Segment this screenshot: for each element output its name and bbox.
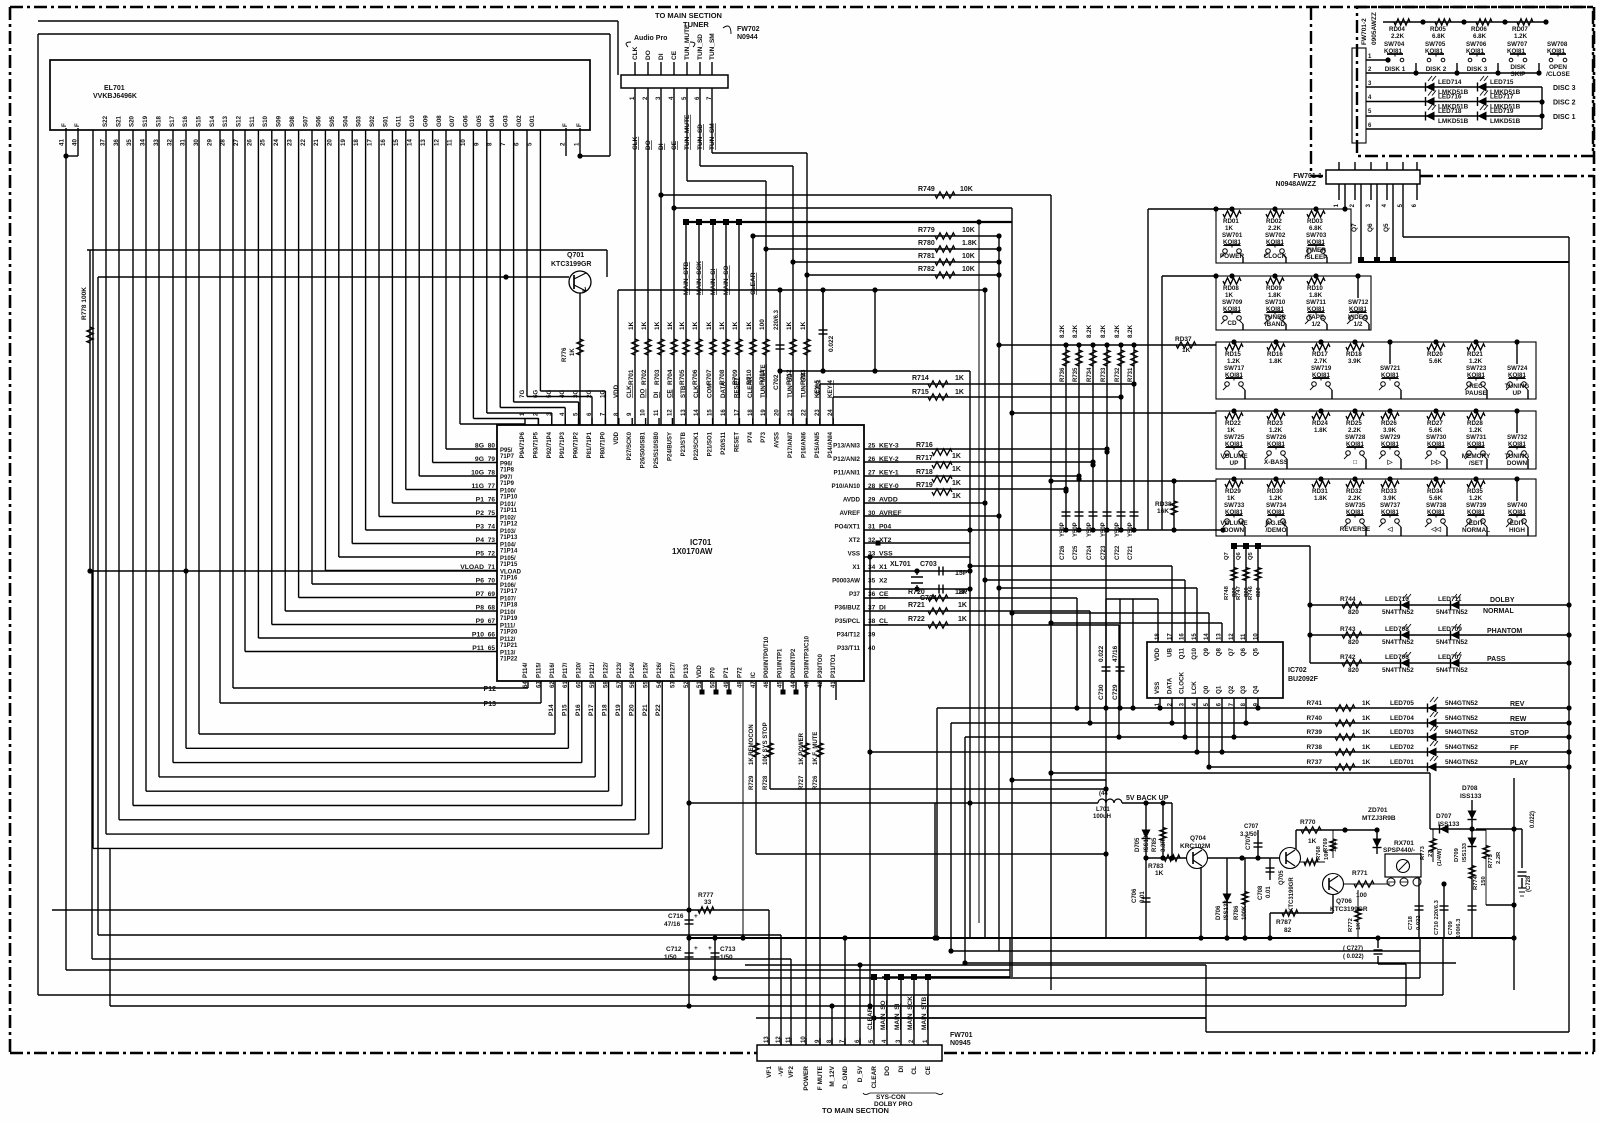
- svg-text:71P12: 71P12: [500, 522, 518, 528]
- svg-text:N0944: N0944: [737, 34, 758, 41]
- svg-text:R733: R733: [1101, 367, 1107, 382]
- svg-text:5N4TTN52: 5N4TTN52: [1382, 667, 1414, 674]
- svg-text:G11: G11: [396, 115, 403, 127]
- svg-text:F MUTE: F MUTE: [817, 1065, 824, 1090]
- svg-text:14: 14: [407, 139, 414, 146]
- svg-text:P15/ANI5: P15/ANI5: [815, 431, 821, 458]
- svg-text:10K: 10K: [962, 227, 975, 234]
- svg-text:P10/AN10: P10/AN10: [831, 483, 860, 490]
- svg-text:11: 11: [654, 409, 660, 416]
- svg-text:15P: 15P: [955, 570, 968, 577]
- svg-text:LED714: LED714: [1438, 79, 1462, 86]
- svg-text:18: 18: [748, 409, 754, 416]
- svg-text:SW725: SW725: [1224, 434, 1245, 441]
- svg-text:KEY-4: KEY-4: [827, 380, 834, 398]
- svg-text:RX701: RX701: [1394, 840, 1414, 847]
- svg-text:3.9K: 3.9K: [1383, 427, 1397, 434]
- svg-text:DISK: DISK: [1510, 64, 1526, 71]
- svg-text:59: 59: [590, 681, 596, 688]
- svg-text:P3: P3: [476, 524, 485, 531]
- svg-text:2.2R: 2.2R: [1496, 851, 1502, 864]
- svg-text:P7: P7: [476, 591, 485, 598]
- svg-text:R717: R717: [916, 455, 933, 462]
- svg-text:C709: C709: [1448, 920, 1454, 935]
- svg-text:54: 54: [657, 681, 663, 688]
- svg-text:FW701-2: FW701-2: [1361, 18, 1368, 45]
- svg-text:80: 80: [488, 443, 496, 450]
- svg-text:UP: UP: [1513, 390, 1523, 397]
- svg-text:1K: 1K: [679, 321, 686, 330]
- svg-text:POWER: POWER: [1220, 253, 1245, 260]
- svg-text:R773: R773: [1420, 845, 1426, 860]
- svg-text:26: 26: [246, 139, 253, 146]
- svg-text:C707: C707: [1244, 824, 1259, 830]
- svg-text:P12: P12: [484, 686, 497, 693]
- svg-text:3.9K: 3.9K: [1348, 358, 1362, 365]
- svg-text:EDIT: EDIT: [1510, 520, 1525, 527]
- svg-text:UP: UP: [1230, 460, 1240, 467]
- svg-text:1/50: 1/50: [720, 954, 733, 961]
- svg-text:Q11: Q11: [1179, 647, 1186, 659]
- svg-text:DO: DO: [640, 389, 647, 398]
- svg-text:3.9K: 3.9K: [1383, 495, 1397, 502]
- svg-text:8G: 8G: [475, 443, 484, 450]
- svg-text:LED703: LED703: [1390, 729, 1414, 736]
- svg-text:10K: 10K: [962, 253, 975, 260]
- svg-text:D705: D705: [1135, 837, 1141, 852]
- svg-text:R716: R716: [916, 442, 933, 449]
- svg-text:0905AWZZ: 0905AWZZ: [1371, 12, 1378, 45]
- svg-text:C722: C722: [1115, 545, 1121, 560]
- svg-text:S20: S20: [129, 115, 136, 127]
- svg-text:R740: R740: [1306, 715, 1322, 722]
- svg-text:D_5V: D_5V: [857, 1065, 864, 1082]
- svg-text:G04: G04: [489, 115, 496, 127]
- svg-text:VLOAD: VLOAD: [460, 564, 484, 571]
- svg-text:47/16: 47/16: [664, 921, 681, 928]
- svg-text:P115/: P115/: [536, 662, 542, 678]
- svg-text:Q704: Q704: [1190, 835, 1206, 842]
- svg-text:5: 5: [527, 142, 534, 146]
- svg-text:P116/: P116/: [550, 662, 556, 678]
- svg-text:11: 11: [447, 139, 454, 146]
- svg-text:22: 22: [300, 139, 307, 146]
- svg-text:R787: R787: [1276, 919, 1292, 926]
- svg-text:P17/ANI7: P17/ANI7: [788, 431, 794, 458]
- svg-text:D709: D709: [1454, 847, 1460, 862]
- svg-text:MAIN_SI: MAIN_SI: [710, 268, 717, 295]
- svg-text:33: 33: [704, 899, 712, 906]
- svg-text:3.3R: 3.3R: [1161, 839, 1167, 852]
- svg-text:D707: D707: [1436, 813, 1452, 820]
- svg-text:AVDD: AVDD: [843, 497, 861, 504]
- svg-text:LED710: LED710: [1385, 596, 1409, 603]
- svg-text:C706: C706: [1132, 888, 1138, 903]
- svg-text:G05: G05: [476, 115, 483, 127]
- svg-text:24: 24: [273, 139, 280, 146]
- svg-text:SW734: SW734: [1266, 502, 1287, 509]
- svg-text:1.8K: 1.8K: [962, 240, 977, 247]
- svg-text:71P8: 71P8: [500, 468, 515, 474]
- svg-text:CL: CL: [879, 618, 888, 625]
- svg-text:5N4TTN52: 5N4TTN52: [1382, 639, 1414, 646]
- svg-text:S12: S12: [236, 115, 243, 127]
- svg-text:SW726: SW726: [1266, 434, 1287, 441]
- svg-text:P37: P37: [849, 591, 861, 598]
- svg-text:5N4TTN52: 5N4TTN52: [1382, 609, 1414, 616]
- svg-text:P21/SO1: P21/SO1: [708, 431, 714, 456]
- svg-text:/SET: /SET: [1469, 460, 1483, 467]
- svg-text:1K F_MUTE: 1K F_MUTE: [813, 732, 819, 765]
- svg-text:R728: R728: [763, 775, 769, 790]
- svg-text:/DEMO: /DEMO: [1266, 527, 1287, 534]
- svg-text:69: 69: [488, 591, 496, 598]
- svg-text:P35/PCL: P35/PCL: [835, 618, 860, 625]
- svg-text:2.2K: 2.2K: [1391, 33, 1405, 40]
- svg-text:1K: 1K: [786, 321, 793, 330]
- svg-text:79: 79: [488, 456, 496, 463]
- svg-text:2.2K: 2.2K: [1348, 495, 1362, 502]
- svg-text:PASS: PASS: [1487, 656, 1506, 663]
- svg-text:Q1: Q1: [1216, 685, 1223, 694]
- svg-text:R714: R714: [912, 375, 929, 382]
- svg-text:10K: 10K: [962, 266, 975, 273]
- svg-text:◁◁: ◁◁: [1430, 526, 1441, 533]
- svg-text:FW701-1: FW701-1: [1293, 173, 1322, 180]
- svg-text:CLEAR: CLEAR: [867, 1007, 874, 1030]
- svg-text:EL701: EL701: [104, 85, 125, 92]
- svg-text:PHANTOM: PHANTOM: [1487, 628, 1522, 635]
- svg-text:R786: R786: [1234, 905, 1240, 920]
- svg-text:FF: FF: [1510, 745, 1519, 752]
- svg-text:RD35: RD35: [1467, 488, 1483, 495]
- svg-text:ISS133: ISS133: [1438, 821, 1460, 828]
- svg-text:N0948AWZZ: N0948AWZZ: [1276, 181, 1317, 188]
- svg-text:P126/: P126/: [657, 662, 663, 678]
- svg-text:1K: 1K: [1362, 729, 1371, 736]
- svg-text:1.2K: 1.2K: [1514, 33, 1528, 40]
- svg-text:71P7: 71P7: [500, 454, 515, 460]
- svg-text:LED709: LED709: [1438, 626, 1462, 633]
- svg-text:SW735: SW735: [1345, 502, 1366, 509]
- svg-text:ISS133: ISS133: [1462, 842, 1468, 862]
- svg-text:+: +: [694, 945, 698, 952]
- svg-text:CE: CE: [879, 591, 889, 598]
- svg-text:S05: S05: [329, 115, 336, 127]
- svg-text:P12/ANI2: P12/ANI2: [833, 456, 860, 463]
- svg-text:P4: P4: [476, 537, 485, 544]
- svg-text:15: 15: [708, 409, 714, 416]
- svg-text:REW: REW: [1510, 716, 1527, 723]
- svg-text:C725: C725: [1073, 545, 1079, 560]
- svg-text:11G: 11G: [472, 483, 484, 490]
- svg-text:S22: S22: [102, 115, 109, 127]
- svg-text:RD06: RD06: [1471, 26, 1487, 33]
- svg-text:CLEAR: CLEAR: [750, 272, 757, 295]
- svg-text:RD26: RD26: [1381, 420, 1397, 427]
- svg-text:LED707: LED707: [1438, 654, 1462, 661]
- svg-text:DO: DO: [884, 1066, 891, 1076]
- svg-text:S13: S13: [222, 115, 229, 127]
- svg-text:RD31: RD31: [1312, 488, 1328, 495]
- svg-text:P133: P133: [684, 663, 690, 678]
- svg-text:OPEN: OPEN: [1549, 64, 1567, 71]
- svg-text:SW731: SW731: [1466, 434, 1487, 441]
- svg-text:RD03: RD03: [1307, 218, 1323, 225]
- svg-text:REV: REV: [1510, 701, 1525, 708]
- svg-text:P127/: P127/: [670, 662, 676, 678]
- svg-text:Q3: Q3: [1240, 685, 1247, 694]
- svg-text:RD08: RD08: [1223, 285, 1239, 292]
- svg-text:P17: P17: [588, 704, 595, 716]
- svg-text:61: 61: [563, 681, 569, 688]
- svg-text:16: 16: [380, 139, 387, 146]
- svg-text:71P19: 71P19: [500, 616, 518, 622]
- svg-text:1.2K: 1.2K: [1269, 495, 1283, 502]
- svg-text:P19: P19: [615, 704, 622, 716]
- svg-text:R706: R706: [692, 369, 699, 385]
- svg-text:10K: 10K: [1324, 849, 1330, 860]
- svg-text:R735: R735: [1073, 367, 1079, 382]
- svg-text:1K: 1K: [1362, 759, 1371, 766]
- svg-text:C713: C713: [720, 946, 736, 953]
- svg-text:STOP: STOP: [1510, 730, 1529, 737]
- svg-text:1.8K: 1.8K: [1309, 292, 1323, 299]
- svg-text:15: 15: [393, 139, 400, 146]
- svg-text:POWER: POWER: [803, 1066, 810, 1091]
- svg-text:1K: 1K: [952, 466, 961, 473]
- svg-text:□: □: [1353, 459, 1357, 466]
- svg-text:DI: DI: [658, 53, 665, 60]
- svg-text:TUNING: TUNING: [1505, 383, 1530, 390]
- svg-text:1K: 1K: [952, 493, 961, 500]
- svg-text:S04: S04: [342, 115, 349, 127]
- svg-text:72: 72: [488, 551, 496, 558]
- svg-text:P0003AW: P0003AW: [832, 578, 860, 585]
- svg-text:CLK: CLK: [693, 385, 700, 398]
- svg-text:6.8K: 6.8K: [1309, 225, 1323, 232]
- svg-text:19: 19: [761, 409, 767, 416]
- svg-text:CLK: CLK: [626, 385, 633, 398]
- svg-text:5N4TTN52: 5N4TTN52: [1436, 639, 1468, 646]
- svg-text:1.8K: 1.8K: [1314, 427, 1328, 434]
- svg-text:IC702: IC702: [1288, 667, 1307, 674]
- svg-text:MAIN_SCK: MAIN_SCK: [907, 996, 914, 1030]
- svg-text:0.022): 0.022): [1530, 811, 1536, 828]
- svg-text:R721: R721: [908, 602, 925, 609]
- svg-text:SW724: SW724: [1507, 365, 1528, 372]
- svg-text:DOWN: DOWN: [1224, 527, 1245, 534]
- svg-text:SPSP440/-: SPSP440/-: [1383, 847, 1415, 854]
- svg-text:R770: R770: [1300, 819, 1316, 826]
- svg-text:5N4GTN52: 5N4GTN52: [1445, 744, 1478, 751]
- svg-text:9: 9: [473, 142, 480, 146]
- svg-text:10K SYS STOP: 10K SYS STOP: [763, 722, 769, 765]
- svg-text:◁: ◁: [1387, 526, 1393, 533]
- svg-text:71P9: 71P9: [500, 481, 515, 487]
- svg-text:S08: S08: [289, 115, 296, 127]
- svg-text:P26/S00/SB1: P26/S00/SB1: [641, 431, 647, 468]
- svg-text:10K: 10K: [960, 186, 973, 193]
- svg-text:PO4/XT1: PO4/XT1: [835, 524, 861, 531]
- svg-text:ZD701: ZD701: [1368, 807, 1388, 814]
- svg-text:SW740: SW740: [1507, 502, 1528, 509]
- svg-text:SW723: SW723: [1466, 365, 1487, 372]
- svg-text:10: 10: [460, 139, 467, 146]
- svg-text:1K: 1K: [958, 602, 967, 609]
- svg-text:VSS: VSS: [848, 551, 860, 558]
- svg-text:2.2K: 2.2K: [1348, 427, 1362, 434]
- svg-text:TO MAIN SECTION: TO MAIN SECTION: [822, 1106, 889, 1115]
- svg-text:G06: G06: [462, 115, 469, 127]
- svg-text:VDD: VDD: [697, 665, 703, 678]
- svg-text:TUN_SD: TUN_SD: [697, 34, 704, 60]
- svg-text:P22: P22: [655, 704, 662, 716]
- svg-text:RD22: RD22: [1225, 420, 1241, 427]
- svg-text:DI: DI: [653, 392, 660, 398]
- svg-text:13: 13: [420, 139, 427, 146]
- svg-text:RD23: RD23: [1267, 420, 1283, 427]
- svg-text:LED717: LED717: [1490, 94, 1514, 101]
- svg-text:820: 820: [1348, 667, 1359, 674]
- svg-text:P117/: P117/: [563, 662, 569, 678]
- svg-text:R779: R779: [918, 227, 935, 234]
- svg-text:RD18: RD18: [1346, 351, 1362, 358]
- svg-text:(C728: (C728: [1526, 875, 1532, 892]
- svg-text:8: 8: [487, 142, 494, 146]
- svg-text:S02: S02: [369, 115, 376, 127]
- svg-text:S01: S01: [382, 115, 389, 127]
- svg-text:-VF: -VF: [778, 1066, 785, 1077]
- svg-text:1K: 1K: [692, 321, 699, 330]
- svg-text:R774: R774: [1473, 875, 1479, 890]
- svg-text:DOLBY: DOLBY: [1490, 597, 1515, 604]
- svg-text:▷▷: ▷▷: [1430, 459, 1441, 466]
- svg-text:1K: 1K: [1227, 495, 1235, 502]
- svg-text:LED719: LED719: [1490, 108, 1514, 115]
- svg-text:R771: R771: [1352, 870, 1368, 877]
- svg-text:TUNING: TUNING: [1505, 453, 1530, 460]
- svg-text:RESET: RESET: [733, 377, 740, 398]
- svg-text:5N4GTN52: 5N4GTN52: [1445, 759, 1478, 766]
- svg-text:C729: C729: [1112, 684, 1119, 700]
- svg-text:RD02: RD02: [1266, 218, 1282, 225]
- svg-text:REC: REC: [1469, 383, 1483, 390]
- svg-text:18: 18: [1155, 633, 1161, 640]
- svg-text:P31/TO1: P31/TO1: [831, 653, 837, 678]
- svg-text:C708: C708: [1258, 885, 1264, 900]
- svg-text:0.022: 0.022: [828, 335, 835, 352]
- svg-text:1K: 1K: [667, 321, 674, 330]
- svg-text:C730: C730: [1098, 684, 1105, 700]
- svg-text:G10: G10: [409, 115, 416, 127]
- svg-text:/SLEEP: /SLEEP: [1305, 254, 1328, 261]
- svg-text:SW704: SW704: [1384, 41, 1405, 48]
- svg-text:2G: 2G: [586, 390, 593, 398]
- svg-text:78: 78: [488, 470, 496, 477]
- svg-text:/BAND: /BAND: [1265, 321, 1286, 328]
- svg-text:ISS133: ISS133: [1224, 900, 1230, 920]
- svg-text:12: 12: [667, 409, 673, 416]
- svg-text:S11: S11: [249, 116, 256, 127]
- svg-text:VIDEO: VIDEO: [1348, 314, 1368, 321]
- svg-text:71P10: 71P10: [500, 495, 518, 501]
- svg-text:S16: S16: [182, 115, 189, 127]
- svg-text:23: 23: [286, 139, 293, 146]
- svg-text:1K: 1K: [958, 616, 967, 623]
- svg-text:P13: P13: [484, 701, 497, 708]
- svg-text:0.022: 0.022: [1098, 645, 1105, 662]
- svg-text:Q706: Q706: [1336, 898, 1352, 905]
- svg-text:COM: COM: [707, 384, 714, 398]
- svg-text:CL: CL: [911, 1066, 918, 1075]
- svg-text:DISC 1: DISC 1: [1553, 114, 1576, 121]
- svg-text:820: 820: [1348, 609, 1359, 616]
- svg-text:TO MAIN SECTION: TO MAIN SECTION: [655, 11, 722, 20]
- svg-text:53: 53: [670, 681, 676, 688]
- svg-text:CE: CE: [925, 1065, 932, 1075]
- svg-text:LED716: LED716: [1438, 94, 1462, 101]
- svg-text:SKIP: SKIP: [1511, 71, 1527, 78]
- svg-text:RD04: RD04: [1389, 26, 1405, 33]
- svg-text:P94/71P6: P94/71P6: [520, 431, 526, 458]
- svg-text:70: 70: [488, 578, 496, 585]
- svg-text:STB: STB: [680, 385, 687, 398]
- svg-text:1.8K: 1.8K: [1268, 292, 1282, 299]
- svg-text:71P22: 71P22: [500, 657, 518, 663]
- svg-text:X1: X1: [879, 564, 888, 571]
- svg-text:X2: X2: [879, 578, 888, 585]
- svg-text:1K REMOCON: 1K REMOCON: [749, 724, 755, 765]
- svg-text:D708: D708: [1462, 785, 1478, 792]
- svg-text:R742: R742: [1340, 654, 1356, 661]
- svg-text:1K: 1K: [1155, 870, 1164, 877]
- svg-text:P36/BUZ: P36/BUZ: [835, 605, 861, 612]
- svg-text:P21: P21: [642, 704, 649, 716]
- svg-text:10K: 10K: [1332, 841, 1338, 852]
- svg-text:P125/: P125/: [644, 662, 650, 678]
- svg-text:P16: P16: [575, 704, 582, 716]
- svg-text:16K: 16K: [1157, 508, 1169, 515]
- svg-text:P121/: P121/: [590, 662, 596, 678]
- svg-text:9G: 9G: [475, 456, 484, 463]
- svg-text:R785: R785: [1152, 837, 1158, 852]
- svg-text:35: 35: [868, 578, 876, 585]
- svg-text:RD10: RD10: [1307, 285, 1323, 292]
- svg-text:R777: R777: [698, 892, 714, 899]
- svg-text:LED718: LED718: [1438, 108, 1462, 115]
- svg-text:RD32: RD32: [1346, 488, 1362, 495]
- svg-text:Q7: Q7: [1228, 647, 1235, 656]
- svg-text:P20/S11: P20/S11: [721, 431, 727, 454]
- svg-text:1/2: 1/2: [1354, 321, 1363, 328]
- svg-text:P90/71P2: P90/71P2: [574, 431, 580, 458]
- svg-text:DATA: DATA: [720, 381, 727, 398]
- svg-text:SW707: SW707: [1507, 41, 1528, 48]
- svg-text:R775: R775: [1488, 853, 1494, 868]
- svg-text:P11/ANI1: P11/ANI1: [834, 470, 861, 477]
- svg-text:F: F: [562, 123, 569, 127]
- svg-text:C721: C721: [1128, 545, 1134, 560]
- svg-text:LMKD51B: LMKD51B: [1490, 118, 1521, 125]
- svg-text:P13/ANI3: P13/ANI3: [833, 443, 860, 450]
- svg-text:R778 100K: R778 100K: [81, 287, 88, 320]
- svg-text:MAIN_SI: MAIN_SI: [894, 1003, 901, 1030]
- svg-text:P91/71P3: P91/71P3: [560, 431, 566, 458]
- svg-text:5N4TTN52: 5N4TTN52: [1436, 609, 1468, 616]
- svg-text:+: +: [694, 913, 698, 920]
- svg-text:RD17: RD17: [1312, 351, 1328, 358]
